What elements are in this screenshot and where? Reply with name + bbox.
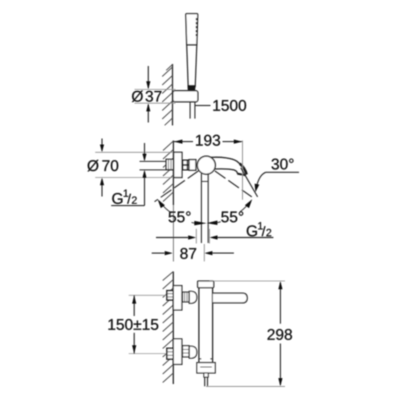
wall hatching (top) [162,65,172,126]
label 55° left [169,211,191,222]
wall (top view) [172,64,174,125]
supply pipe lines [140,160,174,162]
rosette (wall escutcheon, side) [174,152,182,177]
shower head [186,14,198,45]
mixer body [198,288,200,363]
dimension Ø37 extension lines [135,88,176,90]
spout top edge [210,157,246,174]
leader line 1500 [195,105,211,107]
G1/2 outlet extension lines [195,229,197,244]
298 extension lines [210,280,286,282]
outlet nipple [204,373,208,377]
swing arc left segment [163,206,170,212]
30° stream direction line [241,168,258,197]
wall holder bracket [173,91,198,102]
label 193 [196,135,220,146]
label 87 [180,248,196,259]
wall hatching (bottom) [163,272,174,383]
lower union nut [183,346,190,357]
wall hatching (middle) [163,141,173,202]
label Ø37 [132,91,162,103]
upper connection centerline [129,294,167,296]
swing arc left arrowhead [158,199,165,208]
30° leader [257,172,299,184]
spout bottom edge [214,169,237,174]
label 55° right [221,211,243,222]
lower escutcheon [173,339,182,365]
dimension 150±15 [133,295,135,316]
label G1/2 (left) [112,193,122,204]
lever handle (front) [213,293,247,303]
lever joint tick [201,180,208,182]
dashed lever position left 55° [155,171,199,202]
swing arc right segment [240,206,247,212]
dimension G1/2 (left, pipe thread) [144,143,146,160]
spray face marks [196,18,198,36]
lower connection centerline [129,353,167,355]
handle end cap [188,85,196,92]
head/handle joint [188,44,196,46]
lever swing double arrow (bowtie) [194,221,206,226]
outlet tube [204,377,206,386]
upper in-wall connector [167,291,173,300]
87 right extension [203,244,205,261]
Ø70 extension lines (rosette top/bottom) [95,151,173,153]
wall (middle) [172,141,174,206]
label 150±15 [108,319,158,330]
in-wall threaded connector [166,159,173,169]
connector sleeve [189,160,196,171]
upper union nut [183,292,190,302]
dimension 193 [174,141,193,143]
wall (bottom) [172,272,174,385]
lever tube [200,173,202,243]
lower S-union cone [189,346,197,358]
cartridge ball [197,156,215,174]
shower handle [187,45,189,87]
dashed lever position right 55° [215,171,252,197]
wall line lower extension (87 dim) [172,205,174,262]
dimension Ø37 arrows [147,66,149,88]
hose stub below holder [189,102,191,119]
body cap [198,281,214,288]
body aerator ticks [199,358,201,360]
outlet block [197,363,215,373]
spout mouth [237,174,246,176]
upper S-union cone [189,291,197,303]
G1/2 outlet dimension arrows [156,237,188,239]
label Ø70 [87,160,118,172]
label 30° [272,159,294,170]
dimension 87 [152,252,165,254]
label 298 [268,329,292,340]
30° leader arrowhead [255,184,260,193]
193 right extension line [242,141,244,200]
upper escutcheon [173,286,182,310]
threaded nipple [183,160,189,170]
dimension Ø70 arrows [101,139,103,151]
spout tip outer (thick) [240,164,247,175]
lower in-wall connector [167,348,173,359]
label 1500 [213,100,246,111]
swing arc right arrowhead [245,199,252,208]
dimension 298 [279,282,281,323]
label G1/2 (right) [247,225,257,236]
